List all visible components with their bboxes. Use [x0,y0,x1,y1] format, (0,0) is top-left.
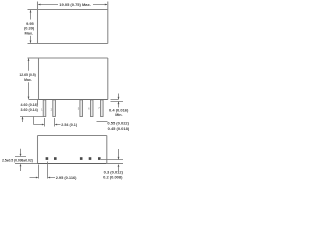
dim pitch 2.54 extension lines [34,118,61,127]
dim height 12.65 label [19,73,35,82]
dim pad row right labels [103,170,124,180]
svg-text:0.2 (0.008): 0.2 (0.008) [103,175,123,180]
pin 5 [80,100,83,117]
svg-text:Min.: Min. [115,113,122,117]
top view body outline [28,2,108,44]
svg-text:12.65 (0.5): 12.65 (0.5) [19,73,35,77]
pad 2 [54,157,57,160]
dim pad offset 2.5 arrows [20,154,22,166]
pin 1 [43,100,46,117]
dim pitch 2.54 arrows [42,124,57,126]
svg-text:0.45 (0.018): 0.45 (0.018) [108,126,130,131]
dim standoff 0.4 lines [111,94,124,108]
svg-text:2.5±0.5 (0.098±0.02): 2.5±0.5 (0.098±0.02) [2,158,33,162]
dim pin width labels [107,121,129,131]
bottom view bottom edge [38,163,107,165]
dim width 19.05 line [38,4,107,6]
dim pin length arrow [22,117,24,120]
svg-text:0.55 (0.022): 0.55 (0.022) [107,121,129,126]
svg-text:19.05 (0.75) Max.: 19.05 (0.75) Max. [59,2,91,7]
svg-text:4.60 (0.18): 4.60 (0.18) [21,103,39,107]
pad 1 [46,157,49,160]
front view seating plane edge [39,99,108,101]
dim height 12.65 arrows [28,58,30,99]
dim standoff 0.4 labels [109,107,129,117]
dim pad inset 2.95 lines [30,162,56,179]
svg-text:2.95 (0.116): 2.95 (0.116) [56,175,77,180]
dim pin length lines [20,100,43,125]
pin 7 [101,100,104,117]
svg-text:Max.: Max. [24,78,32,82]
dim height 9.95 line [30,10,32,42]
dim width 19.05 arrows [38,4,108,6]
dim pad row right arrows [118,157,120,167]
pin 2 [53,100,56,117]
dim pin width leader [97,121,108,123]
pad 5 [80,157,83,160]
front view body outline [28,58,108,100]
dim pin length labels [21,103,39,112]
svg-text:Max.: Max. [25,30,34,35]
bottom view body outline [15,136,123,164]
svg-text:0.4 (0.016): 0.4 (0.016) [109,107,129,112]
dim height 9.95 label [24,21,35,36]
dim standoff 0.4 arrows [118,97,120,104]
dim pad inset 2.95 arrows [36,177,50,179]
svg-text:2.54 (0.1): 2.54 (0.1) [61,123,78,127]
pin 6 [90,100,93,117]
dim height 9.95 arrows [30,10,32,43]
pad 6 [89,157,92,160]
dim pad row right lines [101,149,123,171]
svg-text:3.60 (0.14): 3.60 (0.14) [21,108,39,112]
dim height 12.65 line [28,59,30,99]
pad 7 [98,157,101,160]
dim pad offset 2.5 lines [15,149,26,171]
